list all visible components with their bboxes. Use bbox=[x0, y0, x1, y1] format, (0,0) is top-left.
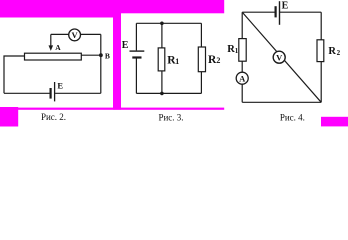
resistor R1 (fig4) bbox=[239, 39, 246, 62]
wire bottom left to battery bbox=[4, 92, 50, 94]
battery E3 short plate bbox=[275, 6, 277, 17]
magenta top-left taller strip bbox=[0, 0, 113, 18]
svg-text:А: А bbox=[239, 73, 246, 83]
wire right branch bbox=[200, 23, 202, 93]
voltmeter V2 circle bbox=[273, 51, 285, 63]
wire left branch upper bbox=[135, 23, 137, 50]
resistor R2 (fig3) bbox=[198, 47, 205, 72]
wire bottom bbox=[136, 92, 201, 94]
node dot fig3 top bbox=[160, 22, 164, 26]
battery E3 long plate bbox=[279, 1, 281, 25]
wire right vertical through B bbox=[100, 34, 102, 93]
ammeter A circle bbox=[236, 72, 248, 84]
svg-text:V: V bbox=[276, 52, 283, 62]
wire top bbox=[136, 22, 201, 24]
resistor R2 (fig4) bbox=[317, 40, 324, 62]
resistor R1 (fig3) bbox=[158, 48, 165, 71]
magenta bottom strip bbox=[0, 108, 224, 110]
svg-text:В: В bbox=[105, 51, 110, 60]
wire bottom bbox=[242, 101, 321, 103]
svg-text:Рис. 3.: Рис. 3. bbox=[158, 112, 183, 122]
magenta bottom-right block bbox=[321, 117, 348, 127]
svg-text:Рис. 4.: Рис. 4. bbox=[280, 112, 305, 122]
svg-text:А: А bbox=[55, 43, 61, 52]
wire wiper vertical bbox=[50, 34, 52, 46]
voltmeter V1 circle bbox=[69, 29, 81, 41]
svg-text:Е: Е bbox=[57, 81, 63, 91]
svg-text:Е: Е bbox=[282, 0, 289, 11]
wire voltmeter left horizontal bbox=[51, 33, 69, 35]
svg-text:2: 2 bbox=[337, 49, 341, 57]
wire voltmeter right horizontal bbox=[80, 33, 100, 35]
wire left branch bbox=[241, 12, 243, 102]
wire battery to right corner bbox=[55, 92, 101, 94]
battery E2 short plate bbox=[132, 56, 141, 58]
wire rheostat right to node B bbox=[81, 54, 101, 56]
svg-text:1: 1 bbox=[175, 57, 179, 66]
wire top left segment bbox=[242, 11, 275, 13]
svg-text:2: 2 bbox=[216, 56, 220, 65]
wire rheostat left lead bbox=[4, 56, 25, 93]
node dot fig3 bottom bbox=[160, 92, 164, 96]
wiper arrow fig2 bbox=[49, 45, 54, 51]
svg-text:Е: Е bbox=[122, 40, 129, 51]
node B dot bbox=[99, 53, 103, 57]
rheostat (slide resistor) bbox=[25, 53, 82, 60]
wire right branch bbox=[320, 12, 322, 102]
magenta vertical band between fig2 and fig3 bbox=[113, 0, 121, 110]
svg-text:V: V bbox=[72, 30, 79, 40]
diagonal wire through voltmeter bbox=[243, 13, 322, 103]
wire left branch lower bbox=[135, 58, 137, 93]
magenta top strip bbox=[0, 0, 224, 13]
svg-text:Рис. 2.: Рис. 2. bbox=[41, 112, 66, 122]
svg-text:R: R bbox=[328, 46, 336, 57]
battery E long plate bbox=[54, 82, 56, 101]
svg-text:1: 1 bbox=[235, 47, 239, 55]
wire top right segment bbox=[279, 11, 321, 13]
wire middle branch bbox=[161, 23, 163, 93]
battery E short plate bbox=[49, 88, 51, 99]
magenta bottom-left block bbox=[0, 107, 18, 127]
battery E2 long plate bbox=[130, 50, 145, 52]
